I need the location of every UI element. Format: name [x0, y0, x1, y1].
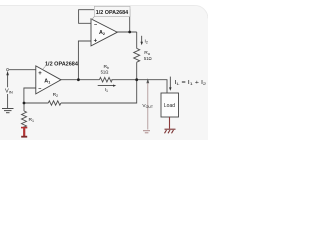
- resistor Ra zigzag: [134, 48, 140, 62]
- wire output down-right column top: [136, 32, 138, 49]
- wire Ra bottom to main row: [136, 62, 138, 79]
- resistor R2 zigzag: [48, 101, 61, 105]
- wire load bottom (red): [169, 117, 171, 129]
- wire A2 feedback loop: [79, 10, 130, 32]
- svg-text:−: −: [38, 87, 41, 93]
- callout box U2 label: [91, 6, 130, 20]
- node (A2 feedback/output): [128, 31, 131, 34]
- ground (probe): [143, 131, 150, 133]
- op-amp U1 triangle: [36, 66, 61, 94]
- probe Vout arrow: [146, 78, 149, 83]
- wire A1 output row: [61, 79, 99, 81]
- svg-text:+: +: [94, 38, 98, 44]
- ground (Vin): [2, 109, 14, 113]
- node (A1 out / A2 +): [77, 78, 80, 81]
- resistor Rb zigzag: [99, 77, 112, 82]
- node (Ra / feedback / main row): [135, 78, 138, 81]
- node A (R1 R2 - input): [23, 102, 26, 105]
- wire node A down to R1: [23, 103, 25, 111]
- svg-text:1/2 OPA2684: 1/2 OPA2684: [45, 61, 79, 67]
- svg-text:−: −: [94, 23, 97, 29]
- ground chassis (load, dark red): [165, 129, 176, 133]
- wire feedback riser to R2 row: [61, 80, 137, 103]
- leader U1 label: [43, 66, 46, 69]
- op-amp U2 triangle: [91, 19, 117, 46]
- wire A2 + input from A1 output: [78, 41, 91, 80]
- wire Vin terminal to A1 + input: [9, 69, 36, 71]
- wire Vin source shaft: [7, 75, 9, 109]
- svg-text:51Ω: 51Ω: [101, 70, 109, 75]
- svg-text:+: +: [38, 71, 42, 77]
- svg-text:1/2 OPA2684: 1/2 OPA2684: [96, 10, 128, 16]
- terminal Vin circle: [6, 68, 8, 70]
- resistor R1 zigzag: [22, 111, 27, 128]
- svg-text:VIN: VIN: [5, 89, 13, 95]
- arrow I2 down: [140, 36, 143, 46]
- load box: [161, 93, 179, 117]
- svg-text:51Ω: 51Ω: [144, 56, 152, 61]
- wire A2 output row: [117, 31, 137, 33]
- svg-text:Load: Load: [164, 103, 175, 109]
- ground (R1, red): [21, 127, 27, 138]
- wire A1 - input to node A: [24, 88, 36, 103]
- arrow IL down: [169, 77, 172, 91]
- wire main row to load corner: [111, 80, 167, 93]
- panel background: [0, 0, 208, 140]
- svg-text:IL = I1 + I2: IL = I1 + I2: [175, 80, 208, 86]
- arrow I1 right: [98, 85, 117, 87]
- arrowhead Vin up: [6, 71, 9, 75]
- wire node A to R2: [24, 102, 48, 104]
